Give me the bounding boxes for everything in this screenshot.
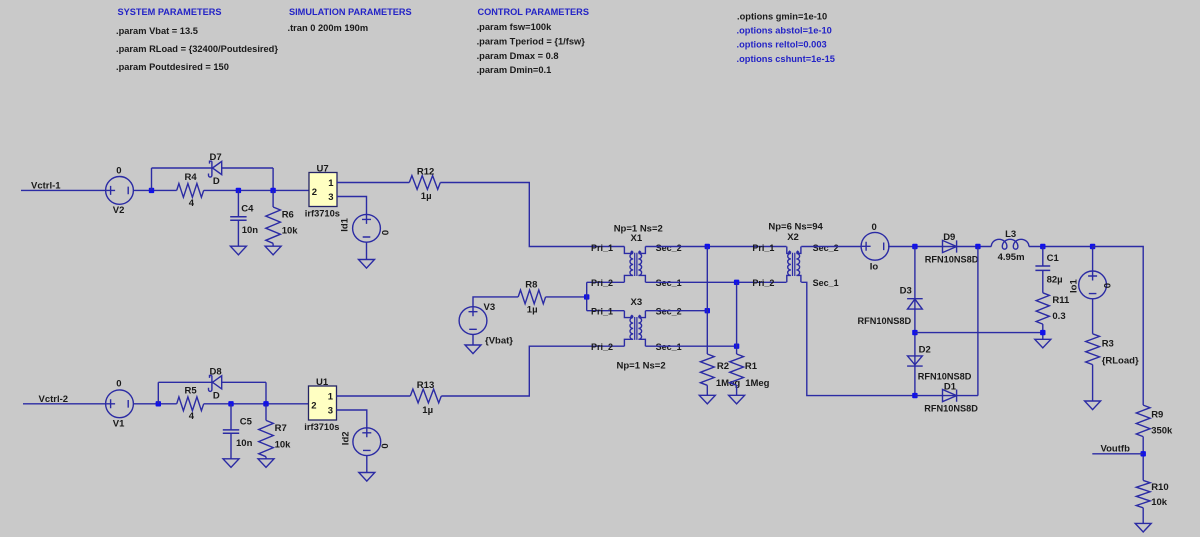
svg-text:.param Tperiod = {1/fsw}: .param Tperiod = {1/fsw} (477, 37, 586, 47)
svg-text:C1: C1 (1047, 253, 1060, 264)
resistor R5 (177, 397, 204, 411)
wire U1 pin3 to Id2 (337, 410, 367, 428)
svg-text:Pri_1: Pri_1 (591, 243, 613, 253)
wire V1 to R5 (133, 403, 177, 405)
wire U1 pin1 to R13 (337, 395, 411, 397)
resistor R7 (259, 420, 274, 456)
svg-text:X1: X1 (631, 233, 643, 244)
svg-text:U1: U1 (316, 377, 329, 388)
ground under R3 (1085, 401, 1101, 410)
svg-text:R1: R1 (745, 361, 758, 372)
wire riser to D8 (157, 382, 159, 404)
resistor R4 (177, 184, 204, 198)
wire R6 to ground (272, 243, 274, 246)
svg-text:D9: D9 (943, 232, 955, 243)
svg-text:R12: R12 (417, 167, 434, 178)
capacitor C5 (223, 430, 239, 433)
transformer X1 (624, 247, 633, 283)
wire D8 to right dropper (222, 381, 266, 383)
svg-text:1µ: 1µ (422, 405, 433, 416)
svg-text:4: 4 (189, 411, 195, 422)
ground under C4 (230, 246, 246, 255)
svg-text:Sec_1: Sec_1 (813, 278, 839, 288)
voltage source V1 (106, 390, 134, 418)
wire L3 to Io1 node (1029, 246, 1093, 248)
capacitor C1 (1035, 266, 1050, 270)
svg-text:Io: Io (870, 262, 879, 273)
wire D7 to right dropper (222, 167, 273, 169)
svg-text:CONTROL PARAMETERS: CONTROL PARAMETERS (478, 7, 589, 17)
svg-text:0: 0 (1103, 283, 1114, 288)
svg-text:10n: 10n (242, 225, 259, 236)
wire X2 Sec_1 down to D1 row (801, 282, 915, 395)
svg-text:RFN10NS8D: RFN10NS8D (858, 316, 912, 326)
svg-text:D1: D1 (944, 381, 957, 392)
resistor R1 (730, 354, 744, 385)
svg-text:3: 3 (328, 192, 333, 203)
wire D3-D2 node to R11 foot (915, 332, 1043, 334)
svg-text:Voutfb: Voutfb (1101, 443, 1131, 454)
wire C5 to ground (230, 433, 232, 458)
junction node C4 (236, 188, 241, 193)
resistor R12 (409, 176, 440, 190)
junction node Sec_2 lower (705, 308, 710, 313)
wire R8 to node (546, 296, 587, 298)
svg-text:D8: D8 (210, 366, 222, 377)
capacitor C4 (230, 217, 246, 220)
wire C4 to ground (237, 220, 239, 246)
svg-text:X2: X2 (787, 232, 799, 243)
svg-text:RFN10NS8D: RFN10NS8D (924, 403, 978, 413)
wire node to D1 out (915, 395, 978, 397)
svg-text:4.95m: 4.95m (998, 252, 1025, 263)
current source Io1 (1079, 271, 1107, 299)
junction node LC (1040, 244, 1045, 249)
svg-text:SIMULATION PARAMETERS: SIMULATION PARAMETERS (289, 7, 412, 17)
junction node D9-out (975, 244, 980, 249)
svg-text:10n: 10n (236, 438, 253, 449)
svg-text:Sec_2: Sec_2 (656, 243, 682, 253)
resistor R8 (518, 290, 545, 304)
wire node to Io1 (1092, 247, 1094, 272)
junction node D1 row (912, 393, 917, 398)
svg-text:X3: X3 (631, 297, 643, 308)
svg-text:4: 4 (189, 198, 195, 209)
ground under R1 (729, 395, 745, 404)
wire Id2 to ground (366, 456, 368, 473)
wire X3 Sec_2 to bus (645, 310, 707, 312)
svg-text:Id1: Id1 (339, 217, 350, 231)
wire R3 to ground (1092, 365, 1094, 401)
wire Vctrl-1 to V2 (21, 189, 106, 191)
wire R4 to U7 pin2 (204, 189, 309, 191)
svg-text:R9: R9 (1151, 409, 1163, 420)
svg-text:.param fsw=100k: .param fsw=100k (477, 22, 553, 32)
wire X1 Sec_2 to X2 Pri_1 (645, 246, 786, 248)
resistor R2 (700, 354, 714, 385)
wire to D7 anode-side (152, 167, 213, 169)
svg-text:1µ: 1µ (527, 304, 538, 315)
transformer X2 (787, 247, 791, 283)
wire to X3 Pri_1 (587, 310, 625, 312)
svg-text:0: 0 (116, 165, 121, 176)
wire Voutfb stub (1092, 453, 1143, 455)
svg-text:82µ: 82µ (1047, 274, 1063, 285)
svg-text:{Vbat}: {Vbat} (485, 336, 513, 347)
voltage source V3 (459, 307, 487, 335)
svg-text:.options abstol=1e-10: .options abstol=1e-10 (737, 26, 832, 36)
svg-text:10k: 10k (275, 439, 292, 450)
svg-text:D3: D3 (900, 285, 912, 296)
wire dropper to main (272, 168, 274, 190)
svg-text:R2: R2 (717, 361, 729, 372)
diode D1 (943, 390, 957, 402)
resistor R3 (1086, 334, 1100, 365)
ground under V3 (465, 345, 481, 354)
svg-text:SYSTEM PARAMETERS: SYSTEM PARAMETERS (118, 7, 222, 17)
junction node V2-D7 (149, 188, 154, 193)
wire Id1 to ground (366, 242, 368, 259)
junction node R6 (270, 188, 275, 193)
wire R12 to X1 Pri_1 (440, 183, 624, 247)
wire R9 to R10 (1142, 437, 1144, 481)
wire dropper to main lower (265, 382, 267, 404)
svg-text:Pri_2: Pri_2 (752, 278, 774, 288)
junction node Sec_1 bus (734, 280, 739, 285)
svg-text:D7: D7 (210, 152, 222, 163)
wire riser to D7 (151, 168, 153, 190)
svg-text:{RLoad}: {RLoad} (1102, 355, 1139, 366)
wire R1 to ground (736, 385, 738, 395)
diode D3 (907, 299, 923, 309)
svg-text:0: 0 (381, 230, 392, 235)
mosfet block U1 irf3710s (309, 386, 337, 420)
wire primary riser (586, 282, 588, 310)
junction node R11 foot (1040, 330, 1045, 335)
wire vertical D9 to D1 out (977, 247, 979, 396)
wire X1 Sec_1 to X2 Pri_2 (645, 281, 786, 283)
svg-text:.param Dmin=0.1: .param Dmin=0.1 (477, 65, 552, 75)
junction node C5 (228, 401, 233, 406)
wire node through D3 D2 (914, 247, 916, 396)
wire top to R9 (1093, 247, 1144, 406)
transformer X3 (624, 311, 633, 347)
voltage source Id1 (353, 214, 381, 242)
svg-text:1: 1 (328, 392, 334, 403)
diode D2 (907, 356, 923, 366)
svg-text:0: 0 (872, 222, 877, 233)
svg-text:D2: D2 (919, 344, 931, 355)
svg-text:Np=6 Ns=94: Np=6 Ns=94 (768, 222, 823, 233)
svg-text:350k: 350k (1151, 426, 1173, 437)
resistor R11 (1036, 293, 1049, 324)
wire Vctrl-2 to V1 (23, 403, 106, 405)
wire X2 Sec_2 to Io (801, 246, 861, 248)
svg-text:Np=1 Ns=2: Np=1 Ns=2 (617, 360, 666, 371)
svg-text:10k: 10k (282, 226, 299, 237)
svg-text:1: 1 (328, 178, 334, 189)
resistor R6 (266, 207, 281, 243)
wire to X1 Pri_2 (587, 281, 625, 283)
svg-text:Id2: Id2 (341, 431, 352, 445)
ground under R2 (699, 395, 715, 404)
svg-text:RFN10NS8D: RFN10NS8D (925, 254, 979, 264)
wire V3 to R8 (473, 297, 518, 307)
svg-text:V1: V1 (113, 419, 125, 430)
junction node R8 primaries (584, 294, 589, 299)
svg-text:C5: C5 (240, 417, 253, 428)
ground under R11 (1035, 339, 1051, 348)
junction node Voutfb (1141, 451, 1146, 456)
current source Io (861, 232, 889, 260)
wire to R6 (272, 190, 274, 207)
wire Sec_1 bus vertical (736, 282, 738, 354)
ground under R6 (265, 246, 281, 255)
svg-text:irf3710s: irf3710s (305, 209, 340, 219)
wire U7 pin3 to Id1 (337, 197, 367, 215)
voltage source Id2 (353, 428, 381, 456)
svg-text:R5: R5 (185, 386, 198, 397)
svg-text:Pri_1: Pri_1 (591, 307, 613, 317)
svg-text:.tran 0 200m 190m: .tran 0 200m 190m (288, 23, 369, 33)
wire to D8 (158, 381, 212, 383)
diode D8 (208, 376, 221, 392)
svg-text:R13: R13 (417, 380, 434, 391)
wire Io1 to R3 (1092, 298, 1094, 334)
svg-text:L3: L3 (1005, 229, 1016, 240)
svg-text:U7: U7 (317, 163, 329, 174)
wire Sec_2 bus vertical (706, 247, 708, 355)
svg-text:0: 0 (116, 379, 121, 390)
svg-text:R8: R8 (525, 280, 537, 291)
svg-text:10k: 10k (1151, 497, 1168, 508)
svg-text:0: 0 (380, 443, 391, 448)
resistor R9 (1136, 405, 1150, 437)
wire to C4 (237, 190, 239, 216)
junction node R7 (263, 401, 268, 406)
svg-text:.options gmin=1e-10: .options gmin=1e-10 (737, 11, 827, 21)
ground under R10 (1135, 523, 1151, 532)
wire U7 pin1 to R12 (337, 182, 409, 184)
junction node Sec_1 lower (734, 344, 739, 349)
wire V2 to R4 (133, 189, 177, 191)
svg-text:R3: R3 (1102, 338, 1114, 349)
svg-text:R10: R10 (1151, 482, 1168, 493)
wire R10 to ground (1142, 508, 1144, 524)
resistor R13 (410, 389, 441, 403)
svg-text:Sec_2: Sec_2 (656, 307, 682, 317)
svg-text:V3: V3 (484, 302, 496, 313)
ground under R7 (258, 459, 274, 468)
wire Io to D9 to L3 (888, 246, 991, 248)
wire V3 to ground (472, 334, 474, 345)
wire X3 Sec_1 to bus (645, 345, 736, 347)
svg-text:Io1: Io1 (1069, 279, 1080, 293)
wire R2 to ground (706, 385, 708, 395)
svg-text:R11: R11 (1052, 295, 1070, 306)
wire to C5 (230, 404, 232, 430)
junction node Io1 top (1090, 244, 1095, 249)
svg-text:1Meg: 1Meg (745, 378, 769, 389)
svg-text:2: 2 (312, 187, 317, 198)
wire C1 to R11 (1042, 270, 1044, 292)
svg-text:0.3: 0.3 (1052, 311, 1065, 322)
mosfet block U7 irf3710s (309, 173, 337, 207)
ground under Id2 (359, 473, 375, 482)
ground under C5 (223, 459, 239, 468)
wire R7 to ground (265, 457, 267, 459)
svg-text:.options reltol=0.003: .options reltol=0.003 (737, 40, 827, 50)
svg-text:1µ: 1µ (421, 191, 432, 202)
svg-text:Pri_2: Pri_2 (591, 342, 613, 352)
junction node V1-D8 (156, 401, 161, 406)
svg-text:.param Vbat = 13.5: .param Vbat = 13.5 (116, 26, 198, 36)
wire R5 to U1 pin2 (204, 403, 309, 405)
svg-text:.options cshunt=1e-15: .options cshunt=1e-15 (737, 54, 835, 64)
junction node D3-D2 (912, 330, 917, 335)
svg-text:Sec_2: Sec_2 (813, 243, 839, 253)
svg-text:Pri_2: Pri_2 (591, 278, 613, 288)
junction node D9-D3 (912, 244, 917, 249)
wire to C1 (1042, 247, 1044, 267)
svg-text:Pri_1: Pri_1 (752, 243, 774, 253)
inductor L3 (991, 239, 1029, 249)
svg-text:RFN10NS8D: RFN10NS8D (918, 371, 972, 381)
svg-text:R7: R7 (275, 423, 287, 434)
resistor R10 (1136, 480, 1150, 507)
wire R13 to X3 Pri_2 (441, 346, 624, 396)
svg-text:R6: R6 (282, 210, 294, 221)
wire to R7 (265, 404, 267, 421)
svg-text:D: D (213, 390, 220, 401)
ground under Id1 (359, 260, 375, 269)
voltage source V2 (106, 177, 134, 205)
svg-text:2: 2 (311, 401, 316, 412)
svg-text:R4: R4 (185, 172, 198, 183)
svg-text:.param RLoad = {32400/Poutdesi: .param RLoad = {32400/Poutdesired} (116, 44, 278, 54)
svg-text:C4: C4 (241, 204, 254, 215)
diode D9 (943, 240, 957, 252)
diode D7 (208, 161, 221, 177)
svg-text:D: D (213, 176, 220, 187)
junction node Sec_2 bus (705, 244, 710, 249)
svg-text:.param Dmax = 0.8: .param Dmax = 0.8 (477, 51, 559, 61)
wire R11 to ground node (1042, 324, 1044, 339)
svg-text:V2: V2 (113, 205, 125, 216)
svg-text:3: 3 (328, 406, 333, 417)
svg-text:irf3710s: irf3710s (304, 422, 339, 432)
svg-text:.param Poutdesired = 150: .param Poutdesired = 150 (116, 62, 229, 72)
